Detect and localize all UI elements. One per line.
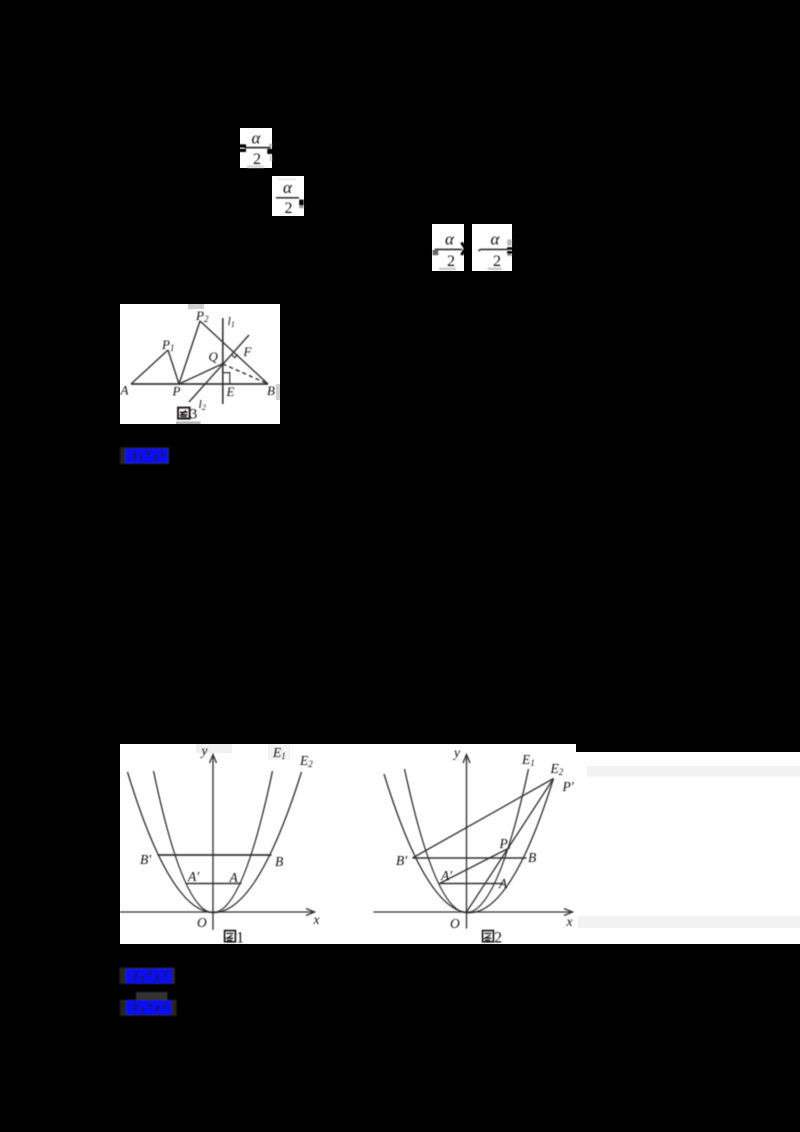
light gray band upper right xyxy=(587,766,800,777)
gray strip top xyxy=(278,178,296,180)
wire P-Q xyxy=(179,364,223,384)
gray strip right edge xyxy=(276,384,280,400)
gray strip below fig3 label xyxy=(176,421,201,424)
wire O-P' fig2 xyxy=(467,779,554,913)
svg-text:α: α xyxy=(252,129,262,148)
svg-text:P′: P′ xyxy=(562,779,575,794)
gray square top right xyxy=(507,239,512,245)
parabola E2 fig1 xyxy=(128,772,302,913)
svg-text:B′: B′ xyxy=(396,853,408,868)
svg-text:3: 3 xyxy=(190,407,198,423)
gray smudge top xyxy=(188,304,204,309)
blue tag 3 xyxy=(120,992,177,1016)
line l1 vertical xyxy=(222,318,224,404)
fraction bar xyxy=(245,147,271,149)
equals mark xyxy=(239,144,246,147)
blue tag 1 xyxy=(120,448,169,465)
svg-text:2: 2 xyxy=(447,253,455,270)
blue tag 2 xyxy=(120,968,176,985)
fraction box 1 (alpha/2) xyxy=(239,128,273,168)
svg-text:F: F xyxy=(243,344,253,359)
svg-text:y: y xyxy=(452,745,460,760)
svg-text:α: α xyxy=(283,178,293,197)
svg-text:A′: A′ xyxy=(187,869,200,884)
chevron artifact xyxy=(462,243,466,256)
y axis fig1 xyxy=(212,756,214,930)
wire P-P2 xyxy=(179,321,200,384)
wire B'-P' fig2 xyxy=(413,779,554,859)
svg-text:α: α xyxy=(445,230,455,249)
baseline A-B xyxy=(131,383,268,385)
svg-text:2: 2 xyxy=(494,930,502,947)
fraction box 3 (alpha/2) xyxy=(432,224,466,271)
segment A'A fig1 xyxy=(186,883,242,885)
figure label 图3 xyxy=(178,407,197,423)
big figure white box xyxy=(120,743,800,947)
y axis fig2 xyxy=(466,756,468,929)
parabola E2 fig2 xyxy=(384,774,554,913)
wire P1-P xyxy=(168,350,179,384)
svg-text:x: x xyxy=(566,914,573,929)
parabola E1 fig1 xyxy=(154,771,273,913)
svg-text:1: 1 xyxy=(236,930,244,947)
perpendicular mark at F xyxy=(232,354,238,357)
svg-text:E: E xyxy=(226,384,235,399)
figure label 图2 xyxy=(483,930,502,947)
svg-text:P: P xyxy=(172,384,181,399)
fraction box 4 (alpha/2) xyxy=(472,224,513,271)
fraction bar xyxy=(478,249,507,251)
wire A-P1 xyxy=(131,350,168,384)
svg-text:A′: A′ xyxy=(440,868,453,883)
svg-text:O: O xyxy=(450,916,460,931)
fraction bar xyxy=(276,197,299,199)
equals mark xyxy=(507,247,512,250)
gray smudge near E1 label fig1 xyxy=(268,744,290,760)
fraction bar xyxy=(435,249,462,251)
parabola E1 fig2 xyxy=(405,769,529,913)
dashed wire Q-B xyxy=(223,364,267,383)
svg-text:B: B xyxy=(528,850,536,865)
gray strip bottom xyxy=(487,268,502,270)
black square artifact xyxy=(267,149,273,154)
svg-text:Q: Q xyxy=(209,349,219,364)
line l2 diagonal xyxy=(189,335,249,402)
svg-text:2: 2 xyxy=(493,253,501,270)
figure 3 white box xyxy=(120,304,281,424)
gray smudge near y label fig1 xyxy=(196,744,232,753)
gray strip bottom xyxy=(439,268,456,271)
svg-text:y: y xyxy=(200,743,208,758)
figure label 图1 xyxy=(225,930,244,947)
svg-text:B: B xyxy=(275,854,283,869)
svg-text:A: A xyxy=(498,876,508,891)
x axis fig1 xyxy=(120,911,313,913)
svg-text:O: O xyxy=(197,915,207,930)
right angle mark at E xyxy=(223,373,230,384)
wire P2-B xyxy=(200,321,268,384)
gray square xyxy=(433,250,439,255)
light gray band lower right xyxy=(578,916,800,928)
fraction box 2 (alpha/2) xyxy=(272,176,304,217)
svg-text:α: α xyxy=(491,230,501,249)
svg-text:A: A xyxy=(120,383,129,398)
svg-text:A: A xyxy=(229,870,239,885)
x axis fig2 xyxy=(374,911,572,913)
segment B'B fig2 xyxy=(413,857,527,859)
svg-text:2: 2 xyxy=(285,200,293,217)
svg-text:P: P xyxy=(499,836,508,851)
segment A'A fig2 xyxy=(440,883,504,885)
comma artifact xyxy=(299,200,304,206)
svg-text:B′: B′ xyxy=(140,852,152,867)
segment B'B fig1 xyxy=(158,854,272,856)
wire A'-P fig2 xyxy=(440,848,511,884)
black notch top-right xyxy=(576,744,800,752)
svg-text:B: B xyxy=(267,383,275,398)
svg-text:x: x xyxy=(313,912,320,927)
